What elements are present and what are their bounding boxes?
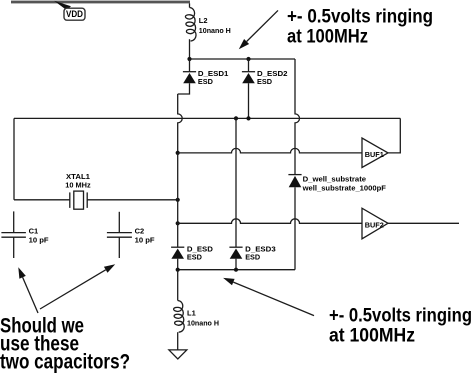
node junction dot rail C left	[176, 151, 180, 155]
svg-text:L1: L1	[187, 308, 196, 317]
svg-text:C2: C2	[135, 227, 145, 236]
inductor L2	[185, 8, 196, 42]
annotation arrow to C1	[18, 267, 38, 313]
wire left loop down	[13, 118, 15, 199]
annotation arrow to rail F	[223, 278, 314, 316]
svg-text:ESD: ESD	[198, 77, 214, 86]
annotation arrow to C2	[40, 264, 115, 309]
svg-text:at 100MHz: at 100MHz	[329, 326, 415, 347]
diode D_ESD3	[229, 247, 242, 259]
capacitor C2	[107, 212, 132, 258]
rail C wire with hops	[178, 148, 362, 153]
svg-text:10 pF: 10 pF	[135, 236, 155, 245]
wire crystal rail left	[14, 199, 70, 201]
svg-text:10 pF: 10 pF	[29, 236, 49, 245]
svg-text:ESD: ESD	[245, 253, 261, 262]
wire D_ESD2 cathode	[248, 59, 250, 72]
inductor L1	[174, 301, 185, 333]
diode D_ESD2	[242, 72, 255, 84]
node junction dot rail B / D_ESD2	[246, 116, 250, 120]
node junction dot crystal / jog vertical	[176, 198, 180, 202]
rail A wire	[190, 58, 296, 60]
wire D_ESD3 anode to rail F	[235, 259, 237, 270]
node junction dot D_ESD2 cathode	[246, 57, 250, 61]
capacitor C1	[1, 211, 26, 258]
wire crystal rail right	[87, 199, 178, 201]
wire D_ESD2 anode to rail B	[248, 83, 250, 118]
buffer BUF1	[362, 138, 388, 168]
wire VDD bar to L2	[189, 3, 191, 7]
svg-text:ESD: ESD	[257, 77, 273, 86]
VDD label box	[64, 8, 85, 20]
VDD leader pointer	[54, 1, 71, 10]
svg-text:ESD: ESD	[187, 253, 203, 262]
svg-text:BUF1: BUF1	[365, 150, 384, 159]
svg-text:D_well_substrate: D_well_substrate	[303, 174, 367, 183]
wire vertical from jog with hop over rail B	[178, 94, 183, 153]
svg-text:at 100MHz: at 100MHz	[287, 27, 368, 48]
ground	[169, 350, 187, 359]
svg-text:10 MHz: 10 MHz	[65, 181, 91, 190]
wire L2 to rail A	[189, 39, 191, 59]
node junction dot rail F / D_ESD	[176, 268, 180, 272]
svg-text:XTAL1: XTAL1	[66, 172, 90, 181]
wire BUF2 output	[388, 222, 459, 224]
annotation arrow to rail A node	[239, 10, 278, 49]
wire D_well anode down to rail F corner	[294, 187, 296, 269]
svg-text:+- 0.5volts ringing: +- 0.5volts ringing	[287, 7, 433, 28]
diode D_well_substrate	[288, 175, 301, 188]
node junction dot rail F / D_ESD3	[234, 268, 238, 272]
svg-text:two capacitors?: two capacitors?	[0, 350, 130, 373]
rail B wire	[14, 117, 400, 119]
svg-text:10nano H: 10nano H	[187, 318, 219, 327]
svg-text:well_substrate_1000pF: well_substrate_1000pF	[302, 184, 387, 193]
svg-text:VDD: VDD	[66, 9, 83, 19]
rail E wire with hops	[178, 219, 362, 224]
svg-text:C1: C1	[29, 227, 39, 236]
wire rail A down to D_ESD1	[189, 59, 191, 72]
wire D_ESD1 anode jog	[178, 83, 190, 94]
diode D_ESD1	[183, 72, 196, 84]
svg-text:BUF2: BUF2	[365, 221, 384, 230]
power rail VDD bar	[11, 1, 190, 4]
svg-text:+- 0.5volts ringing: +- 0.5volts ringing	[329, 306, 472, 327]
buffer BUF2	[362, 208, 388, 239]
wire D_ESD3 cathode from rail B	[235, 118, 237, 247]
wire jog vertical rail C to D_ESD	[177, 153, 179, 247]
node junction dot L2/D_ESD1	[187, 57, 191, 61]
svg-text:L2: L2	[199, 16, 208, 25]
wire D_ESD anode to rail F	[177, 259, 179, 270]
wire rail F to L1	[177, 270, 179, 301]
wire BUF1 output feedback	[388, 118, 400, 152]
rail F wire	[178, 269, 295, 271]
wire L1 to ground	[177, 332, 179, 349]
wire rail A right corner down with hop over rail B	[295, 59, 300, 175]
svg-text:10nano H: 10nano H	[199, 26, 231, 35]
node junction dot rail E left	[176, 221, 180, 225]
node junction dot rail B / D_ESD3	[234, 116, 238, 120]
diode D_ESD	[171, 247, 184, 259]
crystal XTAL1	[70, 191, 87, 209]
